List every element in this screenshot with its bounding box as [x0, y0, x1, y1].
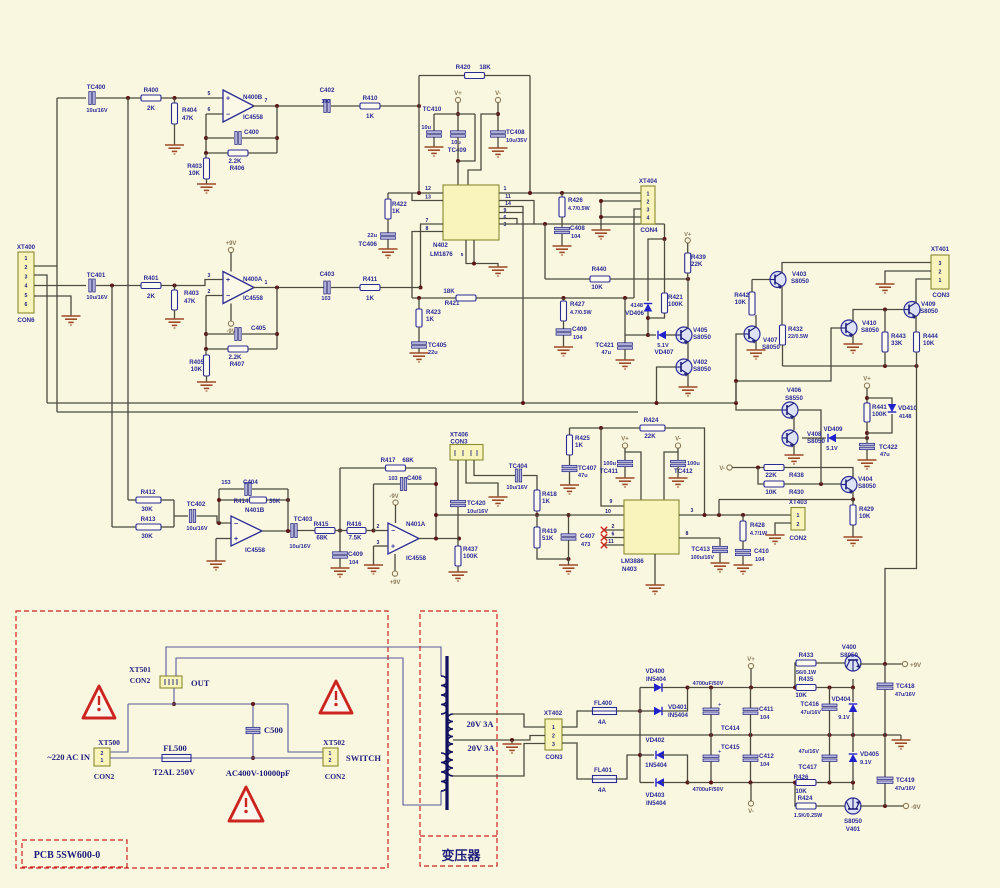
capacitor TC400 10u/16V — [86, 84, 107, 114]
ground V402 — [679, 387, 698, 396]
svg-text:9.1V: 9.1V — [838, 715, 850, 721]
wire R424 feedback row — [570, 427, 641, 429]
capacitor TC418 47u/16V — [877, 662, 916, 735]
capacitor C405 feedback ch2 — [206, 325, 277, 341]
ground XT404 — [592, 230, 611, 239]
svg-text:TC402: TC402 — [187, 501, 206, 508]
connector XT406 CON3 — [450, 432, 483, 461]
svg-text:2: 2 — [208, 289, 211, 295]
wire V+ rail — [457, 103, 459, 131]
ground TC422 — [858, 460, 877, 469]
wire R424 to V401 collector — [816, 805, 845, 807]
wire V404 emitter — [852, 492, 854, 500]
svg-text:S8050: S8050 — [920, 308, 938, 315]
svg-text:4.7/0.5W: 4.7/0.5W — [568, 206, 590, 212]
svg-text:AC400V-10000pF: AC400V-10000pF — [226, 768, 291, 778]
svg-text:1: 1 — [647, 192, 650, 198]
wire pin8 row — [679, 537, 720, 539]
svg-text:2: 2 — [647, 200, 650, 206]
capacitor TC404 10u/16V — [506, 463, 527, 491]
svg-text:10K: 10K — [923, 340, 935, 347]
svg-text:C412: C412 — [759, 753, 774, 760]
wire rail to XT500 — [110, 704, 128, 752]
svg-text:33K: 33K — [891, 340, 903, 347]
svg-text:V+: V+ — [684, 232, 691, 238]
svg-text:S8050: S8050 — [861, 327, 879, 334]
svg-text:4A: 4A — [598, 719, 606, 726]
svg-text:R403: R403 — [187, 163, 202, 170]
power flag -9V op-amp N401A — [389, 494, 398, 505]
resistor R440 10K — [545, 266, 688, 291]
svg-text:XT501: XT501 — [129, 665, 151, 674]
ground pin5 — [489, 267, 508, 276]
svg-text:N401A: N401A — [406, 521, 426, 528]
wire negative rail — [688, 782, 796, 784]
wire base bus row — [736, 328, 841, 381]
svg-text:R441: R441 — [872, 404, 887, 411]
ground C410 — [734, 565, 753, 574]
svg-text:R440: R440 — [592, 266, 607, 273]
transistor V404 S8050 — [841, 476, 876, 494]
diode VD401 IN5404 — [640, 688, 689, 720]
svg-text:100K: 100K — [463, 553, 478, 560]
wire LM3886 output row — [679, 514, 791, 516]
unused pin 2 stub — [601, 524, 624, 533]
svg-text:10K: 10K — [765, 489, 777, 496]
diode VD404 9.1V zener — [832, 688, 858, 736]
svg-text:3: 3 — [377, 540, 380, 546]
node R404 top — [173, 96, 177, 100]
svg-text:VD402: VD402 — [646, 737, 665, 744]
svg-text:+: + — [718, 750, 722, 756]
wire V405 base row — [625, 298, 648, 335]
wire XT400 pin5 to ground — [34, 296, 71, 316]
svg-text:3: 3 — [25, 274, 28, 280]
svg-text:100u: 100u — [603, 461, 616, 467]
unused pin 11 stub — [601, 539, 624, 548]
svg-text:R429: R429 — [859, 506, 874, 513]
op-amp U N403 LM3886 — [621, 500, 679, 573]
capacitor C404 153 feedback — [219, 479, 288, 496]
ground N401B input — [207, 561, 226, 570]
svg-text:OUT: OUT — [191, 678, 210, 688]
ground R404 — [165, 145, 184, 154]
capacitor TC403 10u/16V — [289, 516, 312, 550]
svg-text:VD407: VD407 — [655, 349, 674, 356]
svg-text:R435: R435 — [799, 676, 814, 683]
ground XT401 — [876, 284, 895, 293]
resistor R400 2K — [141, 87, 161, 112]
resistor R432 22/0.5W — [780, 325, 809, 366]
svg-text:C408: C408 — [570, 225, 585, 232]
resistor R441 100K — [864, 403, 887, 443]
svg-text:CON2: CON2 — [94, 772, 115, 781]
svg-text:R437: R437 — [463, 546, 478, 553]
svg-text:4.7/0.5W: 4.7/0.5W — [570, 310, 592, 316]
wire TC403 to R415 — [298, 530, 316, 532]
ground R403b — [165, 319, 184, 328]
svg-text:9: 9 — [610, 499, 613, 505]
svg-text:TC408: TC408 — [506, 129, 525, 136]
ground V408 — [785, 455, 804, 464]
svg-text:8: 8 — [686, 531, 689, 537]
svg-text:2: 2 — [612, 524, 615, 530]
svg-text:10K: 10K — [795, 692, 807, 699]
power flag -9V output — [903, 803, 921, 811]
transistor V401 S8050 regulator — [844, 798, 862, 833]
svg-text:104: 104 — [571, 234, 581, 240]
svg-text:CON3: CON3 — [545, 754, 563, 761]
svg-text:C409: C409 — [572, 326, 587, 333]
svg-text:22u: 22u — [428, 350, 438, 356]
wire V405 emitter to V402 collector — [687, 342, 689, 360]
wire R410 to LM1876 input node — [380, 105, 419, 107]
svg-text:−: − — [391, 528, 395, 535]
svg-text:+9V: +9V — [910, 662, 922, 669]
wire XT404 pin4 to ground — [601, 216, 641, 218]
svg-text:R428: R428 — [750, 522, 765, 529]
svg-text:R414: R414 — [234, 498, 249, 505]
svg-text:XT400: XT400 — [17, 244, 36, 251]
dashed box PCB section — [16, 611, 388, 868]
svg-text:TC417: TC417 — [798, 764, 817, 771]
ground LM3886 — [646, 585, 665, 594]
svg-text:30K: 30K — [269, 498, 281, 505]
wire R433 to V400 collector — [816, 662, 845, 664]
wire XT406 pin1 column — [457, 460, 459, 500]
wire ground return long vertical — [885, 366, 917, 664]
svg-text:100u/16V: 100u/16V — [691, 555, 715, 561]
svg-text:V408: V408 — [807, 431, 822, 438]
transistor V407 S8050 — [744, 326, 780, 351]
svg-text:1: 1 — [101, 758, 104, 764]
resistor R410 1K — [360, 95, 380, 120]
svg-text:1: 1 — [25, 256, 28, 262]
transformer secondary winding 2 — [448, 744, 453, 776]
svg-text:R432: R432 — [788, 326, 803, 333]
svg-text:FL401: FL401 — [594, 767, 612, 774]
svg-text:10u/16V: 10u/16V — [467, 509, 488, 515]
wire V+ reference down — [866, 388, 868, 403]
svg-text:V400: V400 — [842, 644, 857, 651]
capacitor C402 103 — [320, 87, 335, 113]
wire junction down to R412 — [127, 98, 129, 500]
svg-text:9.1V: 9.1V — [860, 760, 872, 766]
wire feedback column mid N401A — [373, 484, 375, 531]
transformer primary winding 2 — [441, 753, 447, 791]
svg-text:4: 4 — [647, 216, 650, 222]
svg-text:104: 104 — [755, 557, 765, 563]
resistor R416 7.5K — [335, 521, 374, 542]
wire pin3 node to mute resistor — [544, 224, 546, 279]
svg-text:C406: C406 — [407, 475, 422, 482]
wire V+ stub — [750, 669, 752, 688]
wire -9V below op-amp — [230, 304, 232, 322]
ground XT406 pin2 — [489, 497, 508, 506]
wire XT403 pin2 to ground — [775, 523, 791, 535]
wire V407 emitter to ground — [755, 341, 757, 350]
wire XT400 pin3 column to bus — [34, 275, 47, 403]
capacitor TC414 4700uF — [703, 686, 740, 736]
wire XT500 pin2 to FL500 — [110, 757, 162, 759]
wire XT501 pin2 to transformer bottom — [176, 658, 441, 805]
ground TC406 — [379, 249, 398, 258]
svg-text:7: 7 — [265, 98, 268, 104]
svg-text:IC4558: IC4558 — [243, 295, 264, 302]
resistor R433 56/1W — [796, 652, 817, 676]
ground center tap — [503, 744, 522, 753]
svg-text:R415: R415 — [314, 521, 329, 528]
svg-text:10u: 10u — [451, 140, 461, 146]
svg-text:-9V: -9V — [389, 494, 398, 500]
transformer primary winding 1 — [441, 676, 447, 714]
svg-text:2: 2 — [329, 758, 332, 764]
resistor R437 100K — [455, 539, 478, 573]
svg-text:47u: 47u — [601, 350, 611, 356]
wire VD406 pair feed — [648, 224, 665, 301]
connector XT502 CON2 SWITCH — [323, 738, 381, 781]
svg-text:TC412: TC412 — [674, 468, 693, 475]
svg-text:TC415: TC415 — [721, 744, 740, 751]
wire V409 emitter to R444 — [915, 317, 917, 333]
resistor R421b 100K — [648, 239, 683, 318]
resistor R442 10K — [734, 280, 756, 328]
svg-text:2: 2 — [25, 265, 28, 271]
wire V- branch — [677, 448, 679, 460]
resistor R403 10K — [187, 151, 209, 184]
wire N401B plus input to ground — [216, 538, 231, 540]
wire pin6 stub — [499, 219, 517, 225]
wire N401B feedback up column — [218, 489, 220, 523]
capacitor C400 feedback — [206, 129, 277, 145]
wire V403 emitter to R432 — [781, 287, 783, 325]
svg-text:6: 6 — [208, 107, 211, 113]
wire N401A plus input to ground — [374, 545, 389, 547]
resistor R428 4.7/1W zobel — [740, 515, 768, 549]
svg-text:13: 13 — [425, 195, 431, 201]
resistor R415 68K — [314, 521, 335, 542]
svg-text:12: 12 — [425, 186, 431, 192]
connector XT403 CON2 — [789, 499, 808, 542]
svg-text:IC4558: IC4558 — [245, 547, 266, 554]
svg-text:10u/16V: 10u/16V — [289, 544, 310, 550]
capacitor TC410 10u — [421, 106, 441, 147]
svg-text:V406: V406 — [787, 387, 802, 394]
wire V408 emitter to ground — [793, 445, 795, 455]
capacitor C407 473 — [561, 515, 595, 565]
wire V405 collector — [687, 279, 689, 328]
svg-text:10u: 10u — [421, 125, 431, 131]
svg-text:103: 103 — [388, 476, 397, 482]
svg-text:10K: 10K — [735, 299, 747, 306]
svg-text:R430: R430 — [789, 489, 804, 496]
power flag V+ LM3886 — [622, 443, 627, 448]
svg-text:30K: 30K — [141, 533, 153, 540]
svg-text:S8050: S8050 — [693, 334, 711, 341]
svg-text:4: 4 — [25, 284, 28, 290]
svg-text:2: 2 — [101, 751, 104, 757]
svg-text:VD404: VD404 — [832, 696, 851, 703]
capacitor TC420 10u/16V — [451, 500, 489, 539]
svg-text:+: + — [234, 536, 238, 543]
connector XT404 CON4 — [639, 178, 658, 234]
resistor R403 47K — [172, 286, 200, 320]
svg-text:7: 7 — [426, 218, 429, 224]
wire V- rail — [497, 103, 499, 131]
wire mute row to output — [719, 499, 853, 501]
power flag V+ reference — [864, 383, 869, 388]
svg-text:+: + — [226, 95, 230, 102]
svg-text:4.7/1W: 4.7/1W — [750, 531, 768, 537]
connector XT401 CON3 — [931, 246, 950, 299]
diode VD402 1N5404 — [640, 737, 688, 783]
wire pin14 to pin9 link — [499, 207, 523, 213]
ground C408 — [553, 246, 572, 255]
resistor R430 10K — [764, 481, 804, 496]
svg-text:104: 104 — [349, 560, 359, 566]
wire V403 collector row to XT401 pin3 — [782, 263, 931, 273]
svg-text:1: 1 — [265, 280, 268, 286]
power flag V- LM3886 — [675, 443, 680, 448]
svg-text:V405: V405 — [693, 327, 708, 334]
wire center tap ground stub — [511, 740, 513, 744]
diode VD400 IN5404 — [640, 668, 688, 692]
power flag V- LM1876 — [495, 97, 500, 102]
capacitor TC405 22u — [412, 342, 448, 356]
wire C402 to R410 — [331, 105, 360, 107]
svg-text:CON2: CON2 — [789, 535, 807, 542]
svg-text:IN5404: IN5404 — [646, 676, 667, 683]
svg-text:CON2: CON2 — [130, 676, 151, 685]
svg-text:4148: 4148 — [631, 303, 643, 309]
wire 0V to ground — [900, 735, 902, 740]
svg-text:R426: R426 — [568, 197, 583, 204]
resistor R418 1K — [534, 490, 557, 515]
svg-text:10: 10 — [605, 509, 611, 515]
wire op-amp output — [253, 105, 324, 107]
svg-text:R400: R400 — [144, 87, 159, 94]
wire N401B output column — [287, 489, 289, 531]
svg-text:IN5404: IN5404 — [646, 800, 667, 807]
capacitor C411 104 — [743, 688, 774, 736]
svg-text:~220 AC IN: ~220 AC IN — [47, 752, 91, 762]
svg-text:R427: R427 — [570, 301, 585, 308]
capacitor TC421 47u — [595, 335, 632, 360]
svg-text:10K: 10K — [591, 284, 603, 291]
resistor R439 22K — [685, 253, 707, 279]
resistor R424 1.5K/0.25W — [794, 795, 823, 819]
capacitor C408 104 — [555, 225, 586, 246]
wire LM3886 input row — [436, 514, 624, 516]
connector XT400 CON6 — [17, 244, 36, 324]
svg-text:IC4558: IC4558 — [406, 555, 427, 562]
svg-text:V+: V+ — [621, 437, 629, 443]
power flag V- supply — [748, 801, 754, 815]
wire V401 emitter to -9V — [860, 805, 903, 807]
wire -9V to N401A — [395, 505, 397, 523]
svg-text:1K: 1K — [366, 295, 374, 302]
svg-text:V410: V410 — [862, 320, 877, 327]
connector XT402 CON3 — [544, 710, 563, 761]
fuse FL500 T2AL 250V — [153, 743, 196, 777]
svg-text:CON3: CON3 — [450, 439, 468, 446]
svg-text:V402: V402 — [693, 359, 708, 366]
svg-text:VD405: VD405 — [860, 751, 879, 758]
wire pin12 row — [388, 192, 443, 194]
resistor R419 51K — [534, 515, 569, 559]
wire R430 to V404 base — [784, 483, 841, 485]
svg-text:SWITCH: SWITCH — [346, 753, 381, 763]
wire feedback node column — [205, 114, 207, 153]
svg-text:22u: 22u — [367, 233, 377, 239]
power flag above R439 — [684, 232, 691, 243]
svg-text:IC4558: IC4558 — [243, 114, 264, 121]
svg-text:2.2K: 2.2K — [228, 158, 242, 165]
wire pin1 output row — [499, 192, 641, 194]
wire XT400 pin2 to channel-1 input column — [34, 98, 57, 266]
svg-text:10K: 10K — [189, 170, 201, 177]
fuse FL400 4A — [593, 700, 617, 726]
svg-text:R407: R407 — [230, 361, 245, 368]
ground TC410 — [425, 147, 444, 156]
wire XT402 pin1 to FL400 — [562, 711, 593, 727]
wire channel-2 feedback row — [412, 297, 457, 299]
diode VD407 5.1V zener — [655, 331, 674, 356]
op-amp N401B IC4558 — [231, 507, 266, 554]
svg-text:XT401: XT401 — [931, 246, 950, 253]
transistor V402 S8050 — [676, 359, 711, 377]
wire N401B output — [262, 530, 291, 532]
resistor R426 10K — [794, 774, 816, 795]
capacitor TC417 47u/16V — [798, 735, 837, 783]
svg-text:3: 3 — [208, 273, 211, 279]
wire V406 emitter to R430 column — [798, 410, 821, 484]
capacitor C403 103 — [320, 271, 335, 302]
wire pin9 column — [601, 428, 624, 506]
capacitor C500 AC400V-10000pF — [226, 702, 291, 778]
svg-text:TC419: TC419 — [896, 777, 915, 784]
transistor V400 S8050 regulator — [840, 644, 861, 671]
wire secondary bottom tap — [453, 744, 545, 777]
wire LM3886 bottom pin to ground — [654, 554, 656, 585]
svg-text:1: 1 — [552, 725, 555, 731]
svg-text:VD400: VD400 — [646, 668, 665, 675]
svg-text:V-: V- — [675, 437, 681, 443]
wire R442 to V403 base — [752, 279, 770, 281]
svg-text:N403: N403 — [622, 566, 637, 573]
svg-text:T2AL 250V: T2AL 250V — [153, 767, 196, 777]
svg-text:R413: R413 — [141, 516, 156, 523]
wire XT501 pin3 down — [173, 688, 175, 704]
svg-text:TC400: TC400 — [87, 84, 106, 91]
capacitor TC419 47u/16V — [877, 735, 916, 806]
svg-text:CON4: CON4 — [640, 227, 658, 234]
capacitor C409 104 zobel ch2 — [556, 326, 587, 347]
svg-text:TC405: TC405 — [428, 342, 447, 349]
svg-text:473: 473 — [581, 542, 590, 548]
wire FL401 to VD402 row — [617, 755, 641, 779]
warning triangle bottom — [229, 787, 263, 821]
diode VD403 IN5404 — [640, 778, 688, 807]
node R403b top — [173, 284, 177, 288]
svg-text:V407: V407 — [763, 337, 778, 344]
warning triangle right — [320, 681, 352, 713]
svg-text:CON2: CON2 — [325, 772, 346, 781]
wire XT404 pin2 to ground — [601, 201, 641, 230]
svg-text:VD409: VD409 — [824, 426, 843, 433]
svg-text:47u/16V: 47u/16V — [895, 692, 916, 698]
wire V402 emitter to ground — [687, 374, 689, 387]
